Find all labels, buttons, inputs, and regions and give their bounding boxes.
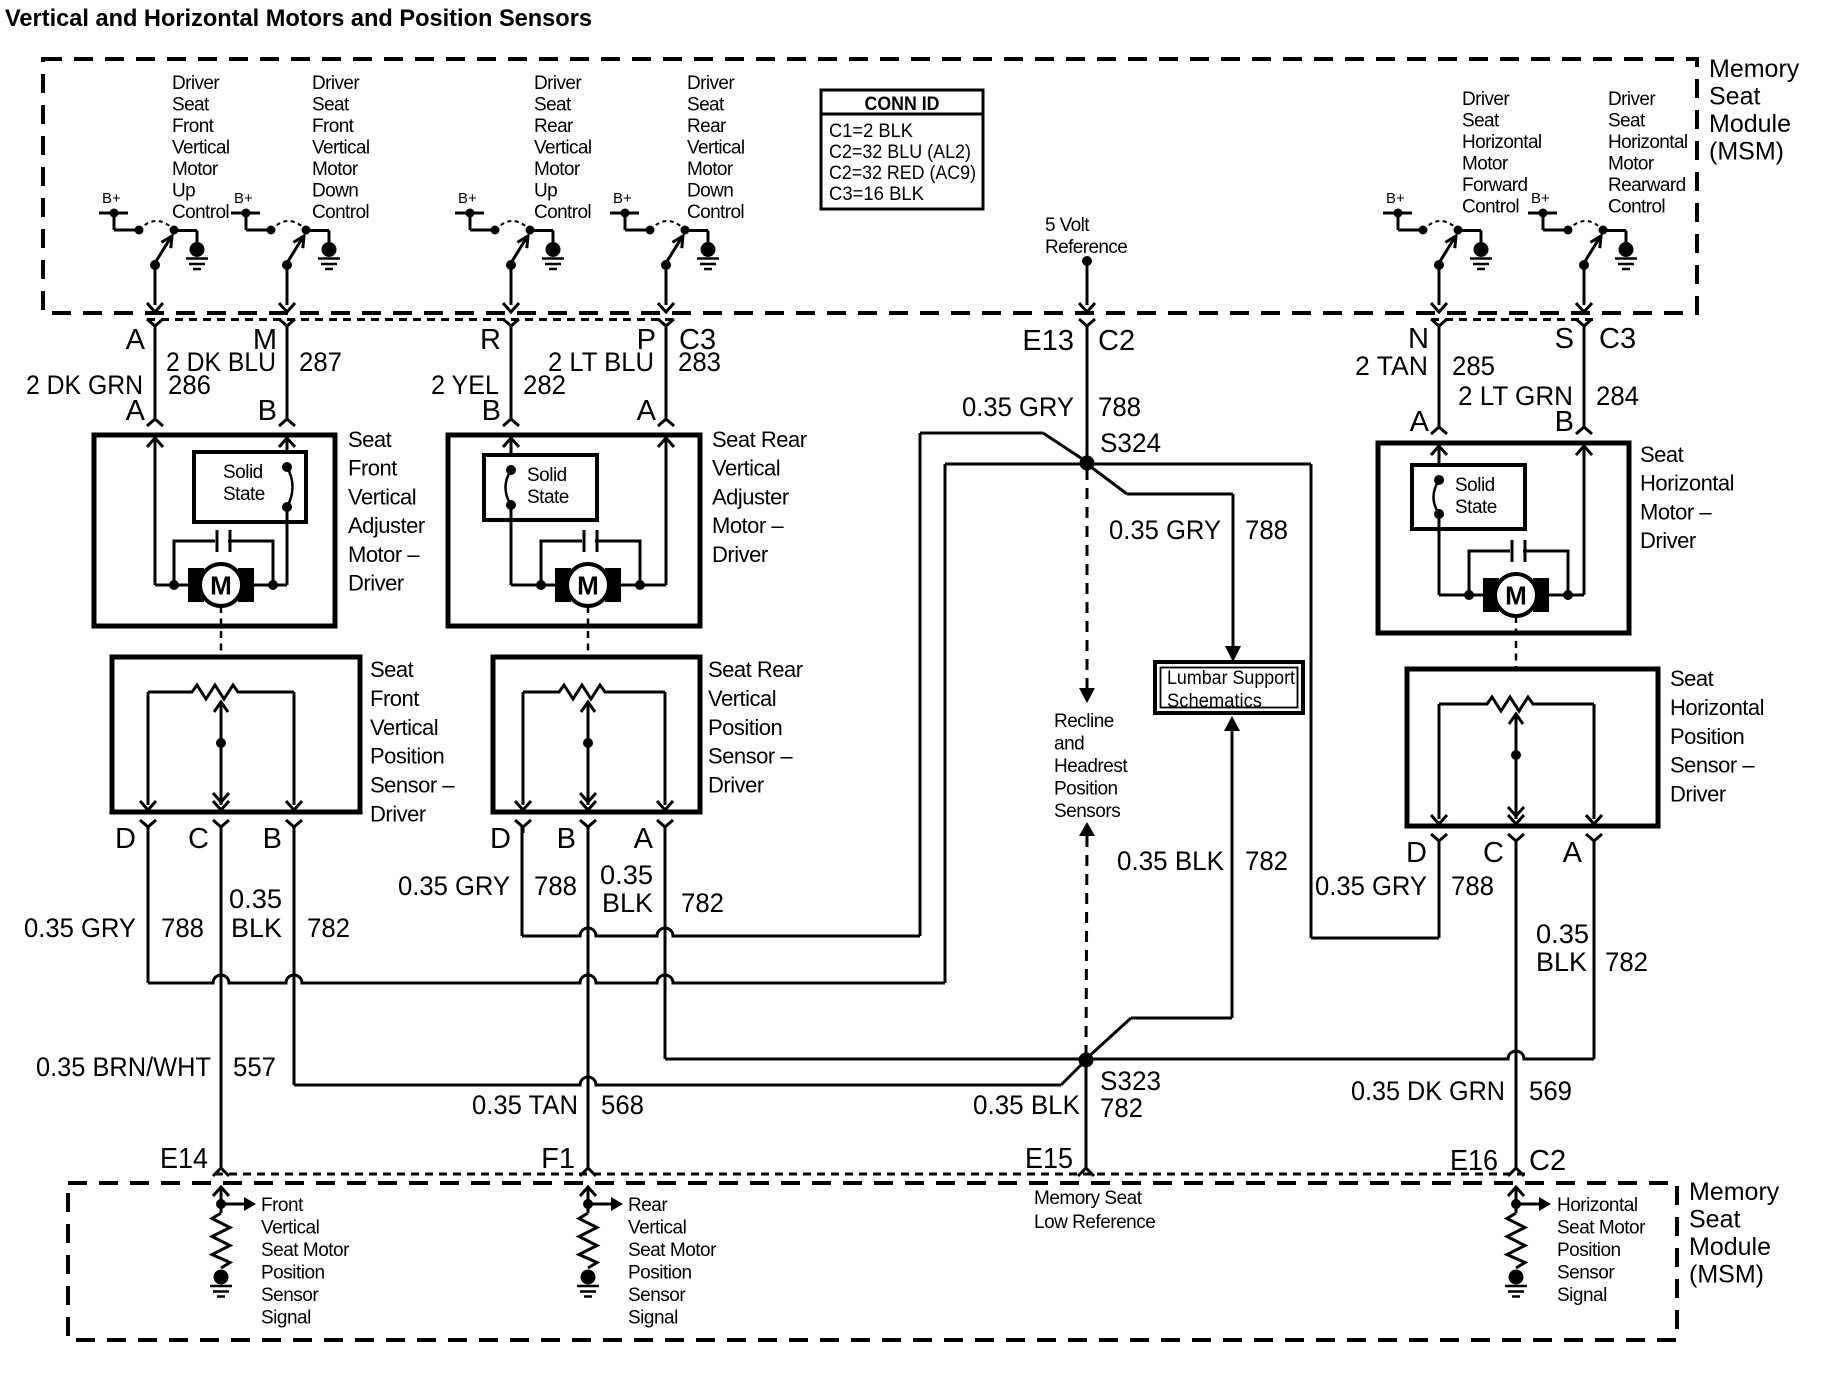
svg-text:284: 284: [1596, 381, 1639, 411]
label: Seat Horizontal Position Sensor - Driver: [1670, 666, 1764, 807]
label: Driver Seat Front Vertical Motor Up Control: [172, 73, 230, 223]
svg-text:Up: Up: [534, 181, 557, 202]
svg-text:0.35 BLK: 0.35 BLK: [1117, 846, 1224, 876]
svg-text:Lumbar Support: Lumbar Support: [1167, 668, 1296, 689]
svg-text:557: 557: [233, 1052, 276, 1082]
svg-text:Forward: Forward: [1462, 175, 1528, 196]
svg-text:Vertical: Vertical: [172, 138, 230, 159]
motor module box: Seat Rear Vertical Adjuster Motor - Driver: [448, 435, 700, 626]
svg-text:Rearward: Rearward: [1608, 175, 1686, 196]
svg-text:Solid: Solid: [223, 462, 263, 483]
lead: right leg (Seat Horizontal Position Sensor - Driver): [1586, 704, 1602, 824]
wire label: 0.35 BLK 782 (sensor 3 A): [1536, 919, 1648, 977]
connector line C3 dashed (right segment): [1431, 318, 1598, 321]
wire label: 0.35 BLK 782 (sensor 2 A): [600, 860, 724, 918]
svg-text:5 Volt: 5 Volt: [1045, 215, 1090, 236]
svg-text:Vertical: Vertical: [708, 686, 776, 711]
wire label: 0.35 GRY 788 (sensor 2 D): [398, 871, 577, 901]
wire: pin N to motor box 3 (2 TAN 285): [1431, 326, 1447, 434]
solid state switch (Seat Front Vertical Adjuster Motor - Driver): [194, 452, 306, 585]
svg-text:Sensor: Sensor: [261, 1285, 319, 1306]
mechanical link: motor 1 to sensor 1 (dashed): [220, 606, 223, 657]
Lumbar Support Schematics box: [1155, 662, 1303, 713]
svg-text:Position: Position: [708, 715, 782, 740]
svg-text:Motor: Motor: [312, 159, 359, 180]
wire: S5 to module boundary: [1431, 265, 1447, 312]
wire: S2 to module boundary: [279, 265, 295, 312]
wire: S6 to module boundary: [1576, 265, 1592, 312]
svg-text:Control: Control: [687, 202, 744, 223]
svg-text:Motor: Motor: [1608, 154, 1655, 175]
label: Seat Horizontal Motor - Driver: [1640, 442, 1734, 553]
ground (Rear Vertical Seat Motor Position Sensor Signal): [577, 1270, 599, 1297]
potentiometer resistor (Seat Horizontal Position Sensor - Driver): [1439, 697, 1594, 711]
svg-text:Position: Position: [370, 744, 444, 769]
switch S3: Driver Seat Rear Vertical Motor Up Control: [491, 221, 554, 270]
motor M (Seat Rear Vertical Adjuster Motor - Driver): [555, 564, 621, 606]
svg-text:Driver: Driver: [1640, 528, 1696, 553]
svg-text:0.35: 0.35: [600, 860, 653, 890]
wire label: 0.35 GRY 788 (sensor 1 D): [24, 913, 204, 943]
mechanical link: motor 3 to sensor 3 (dashed): [1515, 616, 1518, 669]
svg-text:283: 283: [678, 347, 721, 377]
svg-text:D: D: [115, 823, 136, 855]
label: 5 Volt Reference: [1045, 215, 1127, 258]
svg-text:788: 788: [534, 871, 577, 901]
svg-text:Front: Front: [348, 456, 397, 481]
wire: pin S to motor box 3 (2 LT GRN 284): [1576, 326, 1592, 434]
svg-text:Down: Down: [687, 181, 733, 202]
svg-text:Sensor: Sensor: [628, 1285, 686, 1306]
svg-text:Vertical: Vertical: [687, 138, 745, 159]
svg-text:0.35: 0.35: [1536, 919, 1589, 949]
svg-text:Driver: Driver: [370, 802, 426, 827]
svg-text:State: State: [527, 487, 569, 508]
svg-text:Driver: Driver: [687, 73, 735, 94]
wire: pin M to motor box 1 (2 DK BLU 287): [279, 326, 295, 426]
svg-text:Vertical: Vertical: [534, 138, 592, 159]
svg-text:C2: C2: [1529, 1145, 1566, 1177]
label: Solid State (Seat Front Vertical Adjuster Motor - Driver): [223, 462, 265, 505]
lead: right pin wire inside Seat Front Vertical Adjuster Motor - Driver: [279, 438, 295, 452]
B+ terminal (S3): [455, 190, 495, 230]
connector line C2/C3 dashed (left segment): [147, 318, 676, 321]
switch S6: Driver Seat Horizontal Motor Rearward Control: [1564, 221, 1627, 270]
connector pin A (Seat Horizontal Position Sensor - Driver): [1586, 834, 1602, 847]
svg-text:Motor: Motor: [1462, 154, 1509, 175]
wire: S4 to module boundary: [658, 265, 674, 312]
wire: sensor 2 pin A to S323 to sensor 3 pin A (0.35 BLK 782 low ref bus): [665, 826, 1594, 1059]
svg-text:Seat Rear: Seat Rear: [708, 657, 803, 682]
connector terminal pin R (top row): [503, 319, 519, 332]
svg-text:Seat Rear: Seat Rear: [712, 427, 807, 452]
wire: dashed continuation from recline sensors to S323: [1079, 822, 1095, 1053]
wire label: 2 LT GRN 284: [1458, 381, 1639, 411]
wire: Lumbar Support return to S323 (0.35 BLK 782): [1086, 716, 1240, 1059]
svg-text:Driver: Driver: [172, 73, 220, 94]
svg-text:B+: B+: [613, 190, 632, 207]
wire: sensor 1 pin C to E14 (0.35 BRN/WHT 557): [220, 826, 223, 1168]
wire: motor lead (Seat Rear Vertical Adjuster Motor - Driver): [511, 584, 666, 587]
module pin arrow (Front Vertical Seat Motor Position Sensor Signal): [213, 1187, 229, 1213]
svg-text:(MSM): (MSM): [1689, 1261, 1764, 1289]
ground (S2): [318, 242, 340, 269]
connector pin A (Seat Rear Vertical Position Sensor - Driver): [657, 820, 673, 833]
svg-text:782: 782: [1245, 846, 1288, 876]
svg-text:Vertical: Vertical: [628, 1218, 686, 1239]
wire label: 0.35 TAN 568: [472, 1090, 644, 1120]
svg-text:Motor: Motor: [172, 159, 219, 180]
svg-text:Signal: Signal: [628, 1308, 678, 1329]
svg-text:0.35 GRY: 0.35 GRY: [1315, 871, 1427, 901]
lead: right leg (Seat Rear Vertical Position Sensor - Driver): [657, 692, 673, 810]
lead: left pin wire inside Seat Front Vertical Adjuster Motor - Driver: [147, 438, 163, 585]
svg-text:BLK: BLK: [231, 913, 282, 943]
svg-text:Seat: Seat: [312, 95, 350, 116]
svg-text:Signal: Signal: [261, 1308, 311, 1329]
svg-text:State: State: [1455, 497, 1497, 518]
svg-text:2 LT BLU: 2 LT BLU: [548, 347, 654, 377]
connector terminal F1 (bottom): [580, 1168, 596, 1176]
svg-text:Reference: Reference: [1045, 237, 1127, 258]
svg-text:S324: S324: [1100, 428, 1161, 458]
lead: left leg (Seat Horizontal Position Sensor - Driver): [1431, 704, 1447, 824]
svg-text:0.35 GRY: 0.35 GRY: [962, 392, 1074, 422]
resistor (Front Vertical Seat Motor Position Sensor Signal): [212, 1213, 230, 1268]
connector pin B (Seat Rear Vertical Position Sensor - Driver): [580, 820, 596, 833]
signal tap arrow (Horizontal Seat Motor Position Sensor Signal): [1511, 1197, 1551, 1211]
svg-text:Motor –: Motor –: [348, 542, 420, 567]
svg-text:Signal: Signal: [1557, 1285, 1607, 1306]
svg-text:Driver: Driver: [1462, 89, 1510, 110]
svg-text:B+: B+: [102, 190, 121, 207]
svg-text:D: D: [1406, 837, 1427, 869]
ground (S1): [186, 242, 208, 269]
capacitor / brush filter (Seat Horizontal Motor - Driver): [1464, 540, 1573, 600]
solid state switch (Seat Rear Vertical Adjuster Motor - Driver): [484, 455, 597, 585]
wire label: 0.35 BRN/WHT 557: [36, 1052, 276, 1082]
svg-text:Seat: Seat: [1640, 442, 1684, 467]
label: Driver Seat Front Vertical Motor Down Control: [312, 73, 370, 223]
wire label: 2 LT BLU 283: [548, 347, 721, 377]
ground (Front Vertical Seat Motor Position Sensor Signal): [210, 1270, 232, 1297]
svg-text:Position: Position: [628, 1263, 692, 1284]
connector terminal pin A (top row): [147, 319, 163, 332]
svg-text:Up: Up: [172, 181, 195, 202]
svg-text:Sensors: Sensors: [1054, 801, 1120, 822]
svg-text:M: M: [210, 571, 232, 601]
svg-text:0.35 BRN/WHT: 0.35 BRN/WHT: [36, 1052, 211, 1082]
label: Solid State (Seat Horizontal Motor - Driver): [1455, 475, 1497, 518]
wire: S324 upper-left branch to sensor 2 pin D (5V ref): [522, 433, 1087, 936]
svg-text:Memory: Memory: [1689, 1178, 1780, 1206]
svg-text:0.35 GRY: 0.35 GRY: [24, 913, 136, 943]
svg-text:A: A: [637, 395, 657, 427]
svg-text:Motor –: Motor –: [1640, 499, 1712, 524]
wire: E13 C2 to S324 (0.35 GRY 788): [1086, 326, 1089, 459]
svg-text:C3: C3: [1599, 323, 1636, 355]
svg-text:Control: Control: [312, 202, 369, 223]
label: Driver Seat Horizontal Motor Rearward Control: [1608, 89, 1688, 218]
svg-text:(MSM): (MSM): [1709, 138, 1784, 166]
svg-text:A: A: [126, 324, 146, 356]
svg-text:Driver: Driver: [712, 542, 768, 567]
wire label: 0.35 BLK 782 (lumbar return): [1117, 846, 1288, 876]
wire: S324 right branch to sensor 3 pin D (5V ref): [1087, 464, 1439, 938]
svg-text:BLK: BLK: [602, 888, 653, 918]
svg-text:Adjuster: Adjuster: [712, 484, 789, 509]
label: Seat Rear Vertical Position Sensor - Driver: [708, 657, 803, 798]
svg-text:Adjuster: Adjuster: [348, 513, 425, 538]
wire: pin P to motor box 2 (2 LT BLU 283): [658, 326, 674, 426]
junction S324: [1080, 456, 1095, 471]
wiper (Seat Horizontal Position Sensor - Driver): [1508, 714, 1524, 824]
module pin arrow (Rear Vertical Seat Motor Position Sensor Signal): [580, 1187, 596, 1213]
connector pin D (Seat Rear Vertical Position Sensor - Driver): [515, 820, 531, 833]
svg-text:0.35 GRY: 0.35 GRY: [1109, 515, 1221, 545]
svg-text:A: A: [1410, 406, 1430, 438]
B+ terminal (S1): [99, 190, 139, 230]
connector terminal pin P (top row): [658, 319, 674, 332]
lead: right pin wire inside Seat Horizontal Motor - Driver: [1576, 446, 1592, 595]
svg-text:Memory: Memory: [1709, 55, 1800, 83]
connector terminal pin N (top row): [1431, 319, 1447, 332]
potentiometer resistor (Seat Rear Vertical Position Sensor - Driver): [523, 685, 665, 699]
svg-text:Vertical and Horizontal Motors: Vertical and Horizontal Motors and Posit…: [5, 5, 592, 32]
svg-text:Rear: Rear: [628, 1195, 668, 1216]
svg-text:C2: C2: [1098, 325, 1135, 357]
svg-text:E13: E13: [1022, 325, 1074, 357]
svg-text:Module: Module: [1709, 110, 1791, 138]
svg-text:Sensor: Sensor: [1557, 1263, 1615, 1284]
svg-text:Rear: Rear: [687, 116, 727, 137]
svg-text:B: B: [1555, 406, 1574, 438]
svg-text:B: B: [258, 395, 277, 427]
svg-text:Vertical: Vertical: [712, 456, 780, 481]
signal tap arrow (Front Vertical Seat Motor Position Sensor Signal): [216, 1197, 256, 1211]
svg-text:0.35: 0.35: [229, 884, 282, 914]
lead: right leg (Seat Front Vertical Position Sensor - Driver): [286, 692, 302, 810]
B+ terminal (S4): [610, 190, 650, 230]
svg-text:S: S: [1555, 323, 1574, 355]
svg-text:Sensor –: Sensor –: [708, 744, 793, 769]
svg-text:B: B: [263, 823, 282, 855]
switch S5: Driver Seat Horizontal Motor Forward Control: [1419, 221, 1482, 270]
svg-text:0.35 TAN: 0.35 TAN: [472, 1090, 578, 1120]
wire label: 2 YEL 282: [431, 370, 566, 400]
wire: sensor 1 pin B to S323 (0.35 BLK 782): [294, 826, 1086, 1085]
svg-text:Sensor –: Sensor –: [370, 773, 455, 798]
svg-text:Seat: Seat: [370, 657, 414, 682]
svg-text:Seat: Seat: [1608, 111, 1646, 132]
svg-text:0.35 DK GRN: 0.35 DK GRN: [1351, 1076, 1505, 1106]
svg-text:2 DK BLU: 2 DK BLU: [166, 347, 276, 377]
wiper (Seat Rear Vertical Position Sensor - Driver): [580, 702, 596, 810]
capacitor / brush filter (Seat Front Vertical Adjuster Motor - Driver): [169, 530, 278, 590]
wire label: 0.35 GRY 788 (sensor 3 D): [1315, 871, 1494, 901]
svg-text:Low Reference: Low Reference: [1034, 1212, 1155, 1233]
svg-text:State: State: [223, 484, 265, 505]
svg-text:Control: Control: [172, 202, 229, 223]
svg-text:F1: F1: [541, 1143, 575, 1175]
svg-text:M: M: [577, 571, 599, 601]
svg-text:D: D: [490, 823, 511, 855]
svg-text:Vertical: Vertical: [370, 715, 438, 740]
svg-text:569: 569: [1529, 1076, 1572, 1106]
svg-text:Driver: Driver: [1670, 782, 1726, 807]
svg-text:Seat: Seat: [348, 427, 392, 452]
B+ terminal (S2): [231, 190, 271, 230]
svg-text:E14: E14: [160, 1143, 208, 1175]
svg-text:B+: B+: [1386, 190, 1405, 207]
wire: S324 left branch to sensor 1 pin D (5V ref): [148, 464, 1087, 983]
svg-text:C1=2 BLK: C1=2 BLK: [829, 120, 913, 142]
position sensor box: Seat Horizontal Position Sensor - Driver: [1407, 669, 1658, 826]
svg-text:M: M: [1505, 581, 1527, 611]
lead: left pin wire inside Seat Horizontal Motor - Driver: [1431, 446, 1447, 465]
svg-text:Motor: Motor: [534, 159, 581, 180]
svg-text:788: 788: [1451, 871, 1494, 901]
svg-text:B: B: [557, 823, 576, 855]
svg-text:Down: Down: [312, 181, 358, 202]
svg-text:Seat: Seat: [687, 95, 725, 116]
svg-text:C: C: [1483, 837, 1504, 869]
wire label: 0.35 BLK 782 (sensor 1 B): [229, 884, 350, 943]
connector terminal E15 (bottom): [1078, 1168, 1094, 1176]
connector terminal E16 (bottom): [1508, 1168, 1524, 1176]
svg-text:Motor –: Motor –: [712, 513, 784, 538]
wire: sensor 2 pin B to F1 (0.35 TAN 568): [587, 826, 590, 1168]
svg-text:788: 788: [1245, 515, 1288, 545]
svg-text:568: 568: [601, 1090, 644, 1120]
motor M (Seat Front Vertical Adjuster Motor - Driver): [188, 564, 254, 606]
svg-text:Seat: Seat: [172, 95, 210, 116]
mechanical link: motor 2 to sensor 2 (dashed): [587, 606, 590, 657]
wire label: 2 DK BLU 287: [166, 347, 342, 377]
wire: S324 dashed branch to Recline and Headrest Position Sensors: [1079, 469, 1095, 703]
connector pin C (Seat Horizontal Position Sensor - Driver): [1508, 834, 1524, 847]
switch S4: Driver Seat Rear Vertical Motor Down Control: [646, 221, 709, 270]
svg-text:285: 285: [1452, 351, 1495, 381]
svg-text:Headrest: Headrest: [1054, 756, 1128, 777]
svg-text:R: R: [480, 324, 501, 356]
position sensor box: Seat Rear Vertical Position Sensor - Driver: [493, 657, 700, 812]
connector terminal E14 (bottom): [213, 1168, 229, 1176]
svg-text:E16: E16: [1450, 1145, 1498, 1177]
switch S2: Driver Seat Front Vertical Motor Down Control: [267, 221, 330, 270]
svg-text:287: 287: [299, 347, 342, 377]
label: Seat Rear Vertical Adjuster Motor - Driver: [712, 427, 807, 567]
svg-text:Sensor –: Sensor –: [1670, 753, 1755, 778]
svg-text:Seat: Seat: [534, 95, 572, 116]
svg-text:Horizontal: Horizontal: [1462, 132, 1542, 153]
label: Driver Seat Rear Vertical Motor Down Control: [687, 73, 745, 223]
svg-text:Motor: Motor: [687, 159, 734, 180]
connector terminal pin S (top row): [1576, 319, 1592, 332]
resistor (Rear Vertical Seat Motor Position Sensor Signal): [579, 1213, 597, 1268]
svg-text:Vertical: Vertical: [261, 1218, 319, 1239]
ground (S3): [542, 242, 564, 269]
svg-text:Memory Seat: Memory Seat: [1034, 1188, 1143, 1209]
connector pin D (Seat Front Vertical Position Sensor - Driver): [140, 820, 156, 833]
wire: motor lead (Seat Front Vertical Adjuster Motor - Driver): [155, 584, 287, 587]
svg-text:Position: Position: [261, 1263, 325, 1284]
svg-text:Position: Position: [1054, 779, 1118, 800]
wire label: 0.35 GRY 788 (E13): [962, 392, 1141, 422]
svg-text:Seat Motor: Seat Motor: [1557, 1218, 1646, 1239]
svg-text:C3=16 BLK: C3=16 BLK: [829, 183, 924, 205]
lead: right pin wire inside Seat Rear Vertical Adjuster Motor - Driver: [658, 438, 674, 585]
svg-text:Control: Control: [534, 202, 591, 223]
svg-text:Horizontal: Horizontal: [1608, 132, 1688, 153]
capacitor / brush filter (Seat Rear Vertical Adjuster Motor - Driver): [536, 530, 645, 590]
connector terminal pin M (top row): [279, 319, 295, 332]
wire: S324 branch to Lumbar Support Schematics (0.35 GRY 788): [1087, 464, 1241, 662]
svg-text:Driver: Driver: [312, 73, 360, 94]
solid state switch (Seat Horizontal Motor - Driver): [1412, 465, 1525, 595]
svg-text:C: C: [188, 823, 209, 855]
svg-text:Recline: Recline: [1054, 711, 1114, 732]
label: Memory Seat Low Reference: [1034, 1188, 1155, 1233]
ground (S4): [697, 242, 719, 269]
svg-text:782: 782: [307, 913, 350, 943]
svg-text:Module: Module: [1689, 1233, 1771, 1261]
svg-text:Position: Position: [1557, 1240, 1621, 1261]
svg-text:Vertical: Vertical: [312, 138, 370, 159]
motor M (Seat Horizontal Motor - Driver): [1483, 574, 1549, 616]
wire label: 2 DK GRN 286: [26, 370, 211, 400]
wiper (Seat Front Vertical Position Sensor - Driver): [213, 702, 229, 810]
svg-text:B: B: [482, 395, 501, 427]
connector line C2 dashed (bottom): [215, 1173, 1525, 1176]
label: Horizontal Seat Motor Position Sensor Signal: [1557, 1195, 1646, 1306]
svg-text:Driver: Driver: [348, 571, 404, 596]
svg-text:E15: E15: [1025, 1143, 1073, 1175]
svg-text:0.35 GRY: 0.35 GRY: [398, 871, 510, 901]
B+ terminal (S6): [1528, 190, 1568, 230]
svg-text:Control: Control: [1462, 197, 1519, 218]
lead: left pin wire inside Seat Rear Vertical Adjuster Motor - Driver: [503, 438, 519, 455]
svg-text:Front: Front: [312, 116, 355, 137]
svg-text:B+: B+: [458, 190, 477, 207]
svg-text:Seat: Seat: [1709, 83, 1760, 111]
wire: pin A to motor box 1 (2 DK GRN 286): [147, 326, 163, 426]
svg-text:788: 788: [1098, 392, 1141, 422]
svg-text:Seat: Seat: [1689, 1206, 1740, 1234]
wire: S323 to E15 (0.35 BLK 782): [1085, 1060, 1088, 1168]
connector pin C (Seat Front Vertical Position Sensor - Driver): [213, 820, 229, 833]
svg-text:2 TAN: 2 TAN: [1355, 351, 1428, 381]
label: Memory Seat Module (MSM) top right: [1709, 55, 1800, 166]
wire label: 0.35 DK GRN 569: [1351, 1076, 1572, 1106]
svg-text:C2=32 BLU (AL2): C2=32 BLU (AL2): [829, 141, 971, 163]
svg-text:A: A: [1563, 837, 1583, 869]
svg-text:782: 782: [681, 888, 724, 918]
ground (S6): [1615, 242, 1637, 269]
Memory Seat Module (MSM) top dashed box: [43, 59, 1697, 313]
svg-text:A: A: [126, 395, 146, 427]
wire: pin R to motor box 2 (2 YEL 282): [503, 326, 519, 426]
connector pin D (Seat Horizontal Position Sensor - Driver): [1431, 834, 1447, 847]
svg-text:Horizontal: Horizontal: [1557, 1195, 1638, 1216]
label: Lumbar Support Schematics: [1167, 668, 1296, 712]
label: Seat Front Vertical Position Sensor - Driver: [370, 657, 455, 827]
svg-text:C2=32 RED (AC9): C2=32 RED (AC9): [829, 162, 976, 184]
svg-text:A: A: [634, 823, 654, 855]
svg-text:Seat: Seat: [1670, 666, 1714, 691]
svg-text:Position: Position: [1670, 724, 1744, 749]
svg-text:Solid: Solid: [1455, 475, 1495, 496]
